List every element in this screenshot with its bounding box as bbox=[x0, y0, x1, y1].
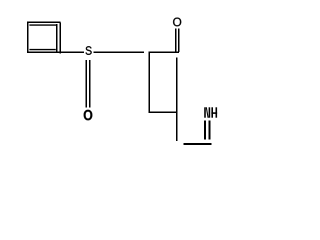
atom label S (sulfoxide sulfur) bbox=[86, 46, 92, 55]
cyclobutanone ring top bond bbox=[148, 51, 178, 53]
S=O double bond line 1 bbox=[85, 60, 87, 108]
phenyl ring bottom bond continuing to S bbox=[27, 51, 84, 53]
phenyl ring top bond bbox=[27, 21, 60, 23]
atom label O (ketone oxygen) bbox=[173, 18, 181, 27]
phenyl ring bottom double-bond inner line bbox=[29, 49, 55, 51]
cyclobutanone ring left bond bbox=[148, 52, 150, 114]
phenyl ring left edge bond bbox=[27, 22, 29, 54]
C=O ketone double bond line 1 bbox=[175, 29, 177, 52]
phenyl ring right inner bond bbox=[56, 24, 58, 53]
phenyl ring top double-bond inner line bbox=[29, 24, 57, 26]
atom label N of NH (imine) bbox=[204, 107, 206, 117]
bond CH2 to imine carbon bbox=[184, 143, 212, 145]
bond S to ring CH bbox=[93, 51, 144, 53]
atom label H of NH (imine) bbox=[211, 107, 213, 117]
cyclobutanone ring right bond extended down bbox=[176, 57, 178, 141]
C=N imine double bond line 1 bbox=[204, 121, 206, 140]
S=O double bond line 2 bbox=[89, 60, 91, 108]
cyclobutanone ring bottom bond bbox=[149, 111, 178, 113]
C=O ketone double bond line 2 bbox=[178, 29, 180, 52]
atom label O (sulfoxide oxygen) bbox=[84, 110, 93, 121]
C=N imine double bond line 2 bbox=[208, 121, 210, 140]
phenyl ring right outer double-bond line bbox=[59, 22, 61, 53]
